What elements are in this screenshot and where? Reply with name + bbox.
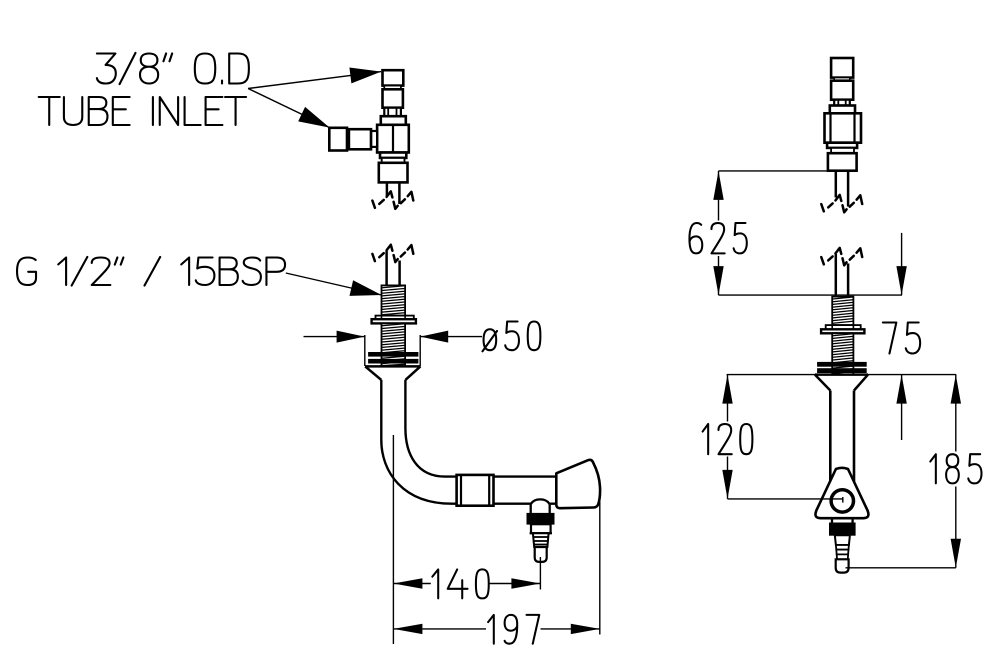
right view: locknut ring 1 — [818, 362, 867, 366]
left view: escutcheon cone — [365, 365, 421, 368]
left view: upper thread block — [382, 285, 406, 315]
right view: body column walls — [829, 391, 832, 484]
left view: compression olive neck — [384, 108, 401, 117]
left view: nozzle bonnet dome — [530, 499, 550, 506]
right view: locknut ring 2 — [818, 369, 867, 373]
right view: tube inlet upper nut — [831, 81, 853, 100]
left view: shank tube walls — [385, 251, 388, 285]
right view: inlet tube walls — [835, 171, 838, 198]
left view: nozzle tip — [535, 547, 547, 562]
right view: tube inlet top cap — [831, 58, 853, 78]
left view: nozzle body box — [531, 524, 551, 533]
label: TUBE INLET — [39, 97, 246, 125]
dim 185 vertical line — [955, 375, 957, 452]
right view: bottom compression nut — [828, 153, 857, 171]
label: 197 — [488, 615, 539, 644]
dim 197 right extension line — [599, 491, 601, 635]
label: 75 — [883, 323, 920, 354]
left view: coupling nut — [457, 475, 494, 506]
dim 185 bottom reference line — [846, 567, 956, 569]
left view: nozzle neck — [530, 505, 532, 514]
right view: upper flange — [830, 106, 855, 114]
label: 185 — [930, 454, 981, 483]
right view: nozzle black collar — [829, 523, 855, 535]
right view: triangular handle — [815, 468, 868, 518]
dim 75 upper pointer — [901, 233, 903, 295]
right view: nozzle barb — [835, 535, 850, 545]
leader line to side cap — [248, 89, 330, 128]
right view: tube inlet top nut neck — [834, 78, 850, 81]
dim 120 pointer to circle centre — [728, 498, 843, 500]
right view: inlet tube break mark — [821, 204, 824, 211]
right view: nozzle neck — [831, 518, 833, 523]
left view: inlet tube walls — [386, 182, 389, 196]
left view: inlet tube break mark — [372, 201, 375, 208]
left view: lower thread block — [382, 323, 406, 366]
left view: nozzle serrated barb — [533, 533, 549, 547]
label: G 1/2 / 15BSP — [17, 257, 285, 286]
left view: side port end cap — [329, 128, 347, 151]
left view: locknut ring 1 — [369, 352, 419, 356]
dim ø50 left arrow — [304, 336, 365, 338]
dim 625 bottom reference line — [719, 294, 903, 296]
dim 140 line left — [393, 583, 430, 585]
right view: compression olive neck — [834, 100, 850, 106]
label: 625 — [689, 223, 746, 253]
left view: lower neck — [382, 158, 405, 163]
dim 625 vertical line — [718, 171, 720, 221]
dim 140/197 left extension line — [392, 435, 394, 644]
left view: spout inner wall — [405, 380, 556, 477]
right view: shank tube walls — [835, 254, 838, 297]
left view: shank tube break mark — [372, 254, 375, 261]
left view: backnut washer — [376, 316, 414, 320]
left view: upper flange — [381, 116, 406, 125]
leader line to top cap — [248, 72, 381, 89]
dim 625 top reference line — [719, 170, 828, 172]
label: 140 — [432, 569, 488, 598]
right view: upper thread block — [832, 297, 853, 326]
right view: backnut washer — [826, 325, 861, 329]
right view: escutcheon cone — [815, 373, 868, 376]
right view: backnut — [821, 329, 864, 333]
right view: lower flange — [827, 143, 857, 148]
right view: valve body hex — [825, 113, 862, 142]
right view: shank tube break mark — [821, 257, 824, 264]
right view: handle index circle — [831, 490, 853, 512]
deck reference line — [727, 374, 957, 376]
left view: lower flange — [380, 153, 406, 158]
left view: backnut — [372, 319, 416, 323]
left view: side port nut — [349, 129, 371, 149]
right view: lower neck — [831, 148, 854, 153]
dim 75 lower pointer — [901, 375, 903, 440]
left view: spout outer wall — [381, 380, 556, 504]
left view: bottom compression nut — [379, 163, 408, 183]
left view: side port stub — [371, 131, 377, 147]
dim 120 vertical line — [727, 375, 729, 422]
right view: lower thread block — [832, 333, 853, 374]
dim 197 line right — [541, 628, 600, 630]
dim ø50 extension lines — [364, 335, 366, 366]
left view: tube inlet top cap — [383, 70, 404, 85]
left view: tube inlet top nut neck — [384, 86, 401, 90]
dim 140 nozzle extension line — [539, 557, 541, 590]
left view: nozzle black collar — [527, 513, 554, 524]
dim 140 line right — [490, 583, 541, 585]
label: 3/8 O.D — [97, 53, 249, 84]
left view: tube inlet upper nut — [383, 89, 403, 107]
left view: locknut ring 2 — [369, 359, 419, 363]
label: ø50 — [482, 322, 540, 352]
left view: handle wedge — [556, 460, 600, 508]
right view: nozzle tip — [836, 559, 849, 572]
dim ø50 right arrow — [420, 336, 482, 338]
left view: valve tee body — [377, 125, 409, 153]
label: 120 — [703, 424, 753, 454]
dim 197 line left — [393, 628, 486, 630]
leader line to thread — [286, 273, 382, 295]
